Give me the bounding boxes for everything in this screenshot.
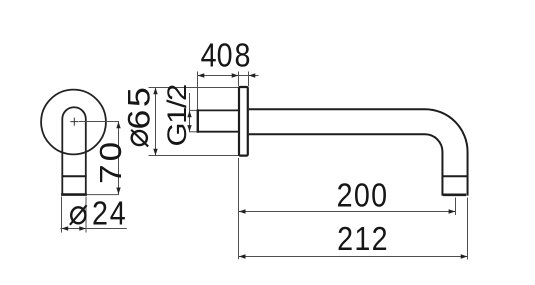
svg-text:200: 200	[337, 177, 389, 214]
212 arrow right	[461, 254, 468, 258]
8 dim extension line right	[248, 72, 250, 87]
40 dim extension line left	[197, 72, 199, 110]
70 dim arrow up	[116, 122, 120, 129]
8 dim extension line left	[238, 72, 240, 87]
dia24 arrow right	[79, 226, 86, 230]
G1/2 tick top	[189, 109, 198, 111]
spout tube front view: walls and top cap	[62, 107, 86, 194]
G1/2 arrow down	[187, 125, 191, 132]
svg-text:40: 40	[201, 37, 233, 74]
212 arrow left	[239, 254, 246, 258]
200 dimension line	[239, 211, 456, 213]
dia24 extension line right	[85, 197, 87, 233]
svg-text:65: 65	[122, 85, 157, 130]
aerator joint line (front view)	[62, 175, 87, 177]
200 arrow right	[449, 209, 456, 213]
svg-text:70: 70	[93, 139, 127, 184]
label dia 65: diameter symbol (drawn, rotated)	[131, 130, 148, 147]
svg-text:24: 24	[92, 195, 127, 232]
70 dimension line (vertical)	[118, 122, 120, 195]
nipple end face (thick left edge)	[197, 109, 199, 133]
flange circle (front view)	[41, 90, 106, 155]
dia65 dimension line (vertical)	[155, 88, 157, 156]
dia65 extension line bottom	[149, 155, 240, 157]
dia24 arrow left	[62, 226, 69, 230]
70 dim arrow down	[116, 188, 120, 195]
212 extension line (outer edge)	[467, 198, 469, 260]
dia65 extension line top	[149, 87, 249, 89]
dia65 arrow down	[153, 149, 157, 156]
svg-text:212: 212	[337, 220, 389, 257]
svg-text:8: 8	[235, 37, 251, 74]
outlet bottom face (side view)	[443, 194, 466, 197]
arm tube bottom edge with inner bend	[249, 134, 443, 195]
dia65 arrow up	[153, 88, 157, 95]
center mark +	[70, 118, 78, 126]
40 arrow left	[198, 73, 205, 77]
200 arrow left	[239, 209, 246, 213]
wall face extension line (down from flange)	[238, 158, 240, 259]
label dia 24: diameter symbol (drawn)	[70, 205, 87, 225]
G1/2 arrow up	[187, 111, 191, 118]
8 outside arrow (points left)	[249, 73, 256, 77]
outlet joint line (side view)	[442, 175, 467, 177]
bottom extension line to 70-dim	[87, 194, 119, 196]
dia24 extension line left	[61, 197, 63, 233]
leader line from center to 70-dim	[79, 121, 119, 123]
tube bottom end line (front view)	[61, 193, 87, 196]
wall flange rectangle (side view)	[239, 87, 248, 156]
40 arrow right / 8 arrow	[232, 73, 239, 77]
200 extension line (outlet center)	[455, 198, 457, 216]
G1/2 tick bottom	[189, 131, 198, 133]
top dimension line 40/8	[198, 75, 259, 77]
dia24 dimension line	[60, 228, 126, 230]
212 dimension line	[239, 256, 468, 258]
G1/2 dimension line (vertical)	[189, 93, 191, 132]
threaded nipple (side view)	[198, 110, 239, 131]
arm tube top edge with outer bend	[249, 109, 468, 195]
